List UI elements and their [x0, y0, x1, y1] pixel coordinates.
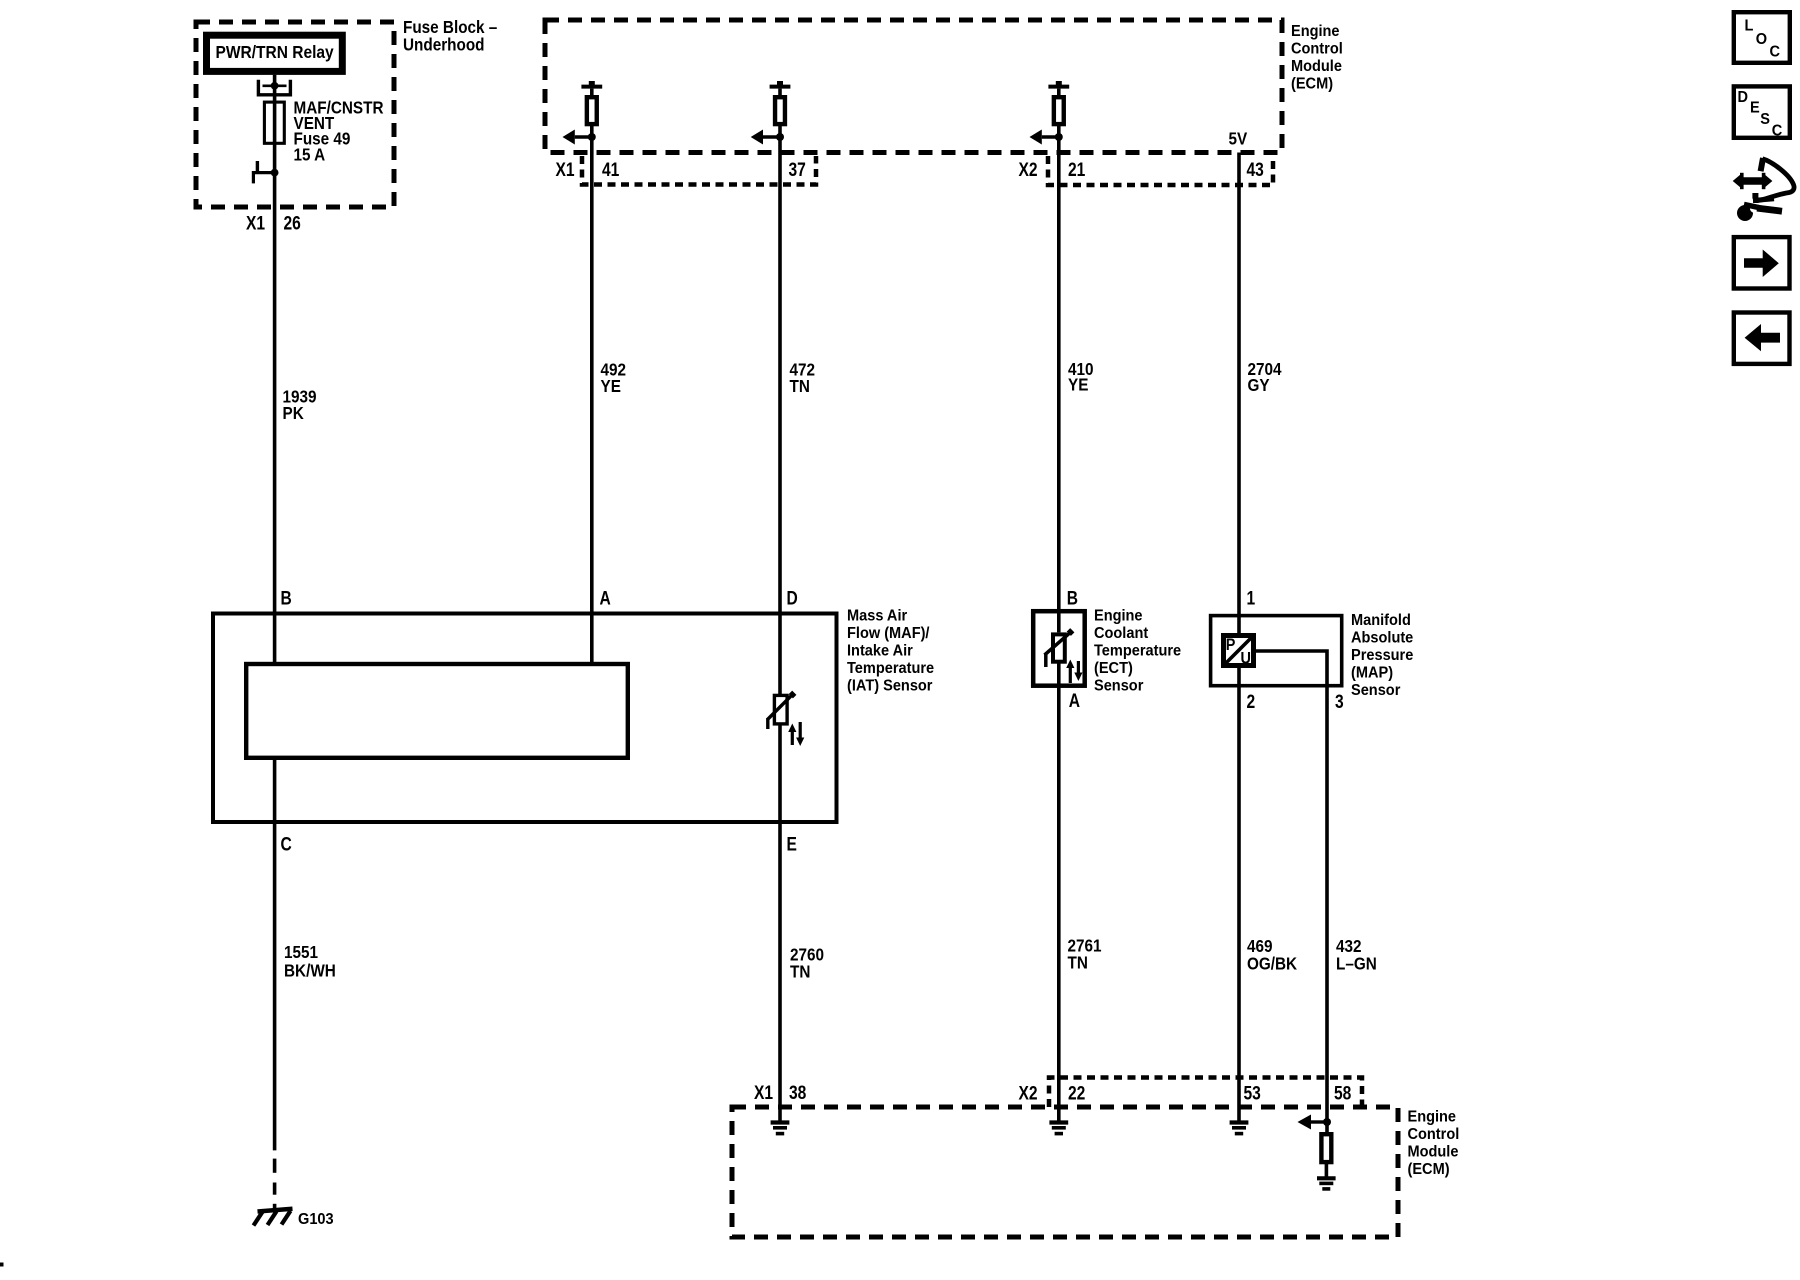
MAF sensor element inner box [246, 664, 628, 758]
svg-text:Intake Air: Intake Air [847, 642, 913, 660]
relay contact bar [263, 85, 287, 88]
svg-text:X1: X1 [754, 1081, 773, 1103]
fine dashed connector box X1 (pins 41,37) [582, 156, 816, 185]
fuse block - underhood dashed box [196, 22, 394, 207]
wire 410 YE (pin 21 to ECT pin B) [1057, 137, 1061, 632]
svg-text:(MAP): (MAP) [1351, 664, 1393, 682]
svg-text:1: 1 [1247, 587, 1256, 609]
svg-text:Underhood: Underhood [403, 35, 485, 55]
ECM internal pin 37: terminal T-bar [770, 85, 791, 89]
wrench [1737, 205, 1753, 221]
junction dot pin 41 [588, 133, 596, 141]
junction dot [271, 82, 279, 90]
airflow arrows (up/down) [791, 732, 794, 746]
svg-text:U: U [1241, 649, 1251, 667]
svg-text:C: C [1770, 43, 1781, 61]
wire 1939 PK (relay to MAF pin B) [273, 75, 277, 662]
wire pin 3 / 432 L-GN (MAP to ECM 58) [1254, 651, 1328, 1134]
wire 492 YE (pin 41 to MAF pin A) [590, 137, 594, 662]
svg-text:X1: X1 [246, 212, 265, 234]
wire 2761 TN (ECT pin A to ECM 22) [1057, 662, 1061, 1122]
svg-text:Absolute: Absolute [1351, 629, 1413, 647]
svg-text:Engine: Engine [1408, 1108, 1457, 1126]
svg-text:Module: Module [1291, 58, 1342, 76]
ECT sensor box [1033, 611, 1085, 686]
MAP pressure transducer P/U [1224, 636, 1254, 666]
ECM internal ground (pin 38) [771, 1120, 790, 1124]
svg-text:Control: Control [1408, 1126, 1460, 1144]
fuse 49 (MAF/CNSTR VENT 15 A) [264, 102, 284, 143]
output arrow pin 41 [575, 135, 592, 138]
ECM internal ground (pin 58 resistor) [1317, 1176, 1336, 1180]
svg-text:L–GN: L–GN [1336, 953, 1377, 973]
wire pin 2 / 469 OG/BK (MAP to ECM 53) [1237, 666, 1241, 1122]
svg-text:P: P [1226, 636, 1236, 654]
MAP sensor box [1211, 616, 1342, 686]
svg-text:GY: GY [1248, 375, 1270, 395]
svg-text:37: 37 [789, 158, 807, 180]
svg-text:S: S [1760, 111, 1770, 129]
svg-text:BK/WH: BK/WH [284, 960, 336, 980]
svg-text:Manifold: Manifold [1351, 612, 1411, 630]
svg-text:C: C [281, 833, 292, 855]
svg-text:26: 26 [284, 212, 302, 234]
vehicle outline squiggle [1761, 158, 1763, 171]
junction dot pin 37 [776, 133, 784, 141]
svg-text:PWR/TRN Relay: PWR/TRN Relay [216, 42, 335, 62]
wire pin E segment (thermistor to box bottom and ECM 38) [778, 724, 782, 1122]
wire 2704 GY (pin 43 to MAP pin 1) [1237, 153, 1241, 634]
svg-text:C: C [1772, 122, 1783, 140]
svg-text:A: A [600, 587, 611, 609]
svg-text:D: D [1738, 89, 1749, 107]
svg-text:Temperature: Temperature [847, 660, 934, 678]
output arrow pin 37 [763, 135, 780, 138]
dashed wire continuation to G103 [273, 1159, 277, 1173]
svg-text:YE: YE [601, 376, 621, 396]
IAT thermistor (variable resistor) [774, 695, 787, 724]
chassis ground G103 [258, 1209, 293, 1212]
svg-text:(ECM): (ECM) [1291, 75, 1333, 93]
svg-text:X1: X1 [556, 158, 575, 180]
svg-text:Sensor: Sensor [1351, 682, 1401, 700]
svg-text:O: O [1756, 31, 1768, 49]
MAF/IAT sensor outer box [213, 614, 837, 823]
wire pin C segment 1551 BK/WH [273, 757, 277, 1151]
svg-text:A: A [1069, 689, 1080, 711]
svg-text:X2: X2 [1019, 1082, 1038, 1104]
fine dashed connector box X2 (pins 21,43) [1048, 156, 1273, 185]
svg-text:Module: Module [1408, 1143, 1459, 1161]
ECM internal pin 41: terminal T-bar [581, 85, 602, 89]
svg-text:58: 58 [1334, 1082, 1352, 1104]
relay output terminal bracket [258, 80, 290, 95]
svg-text:Temperature: Temperature [1094, 642, 1181, 660]
svg-text:22: 22 [1068, 1082, 1086, 1104]
fine dashed connector box X2 (bottom) [1049, 1078, 1362, 1108]
svg-text:PK: PK [283, 403, 304, 423]
svg-text:41: 41 [602, 158, 620, 180]
svg-text:3: 3 [1335, 690, 1344, 712]
ECT airflow arrows [1069, 668, 1072, 683]
svg-text:B: B [1067, 587, 1078, 609]
junction dot pin 21 [1055, 133, 1063, 141]
svg-text:TN: TN [790, 376, 810, 396]
ECM internal resistor pin 21 [1054, 97, 1064, 124]
svg-text:TN: TN [790, 961, 810, 981]
terminal symbol at fuse block output [253, 171, 274, 174]
ECM internal resistor pin 37 [775, 97, 785, 124]
svg-text:E: E [1750, 99, 1760, 117]
svg-text:YE: YE [1068, 374, 1088, 394]
svg-text:38: 38 [789, 1081, 807, 1103]
svg-text:5V: 5V [1229, 128, 1248, 148]
ECM pin 58 signal arrow [1311, 1120, 1327, 1123]
svg-text:B: B [281, 587, 292, 609]
svg-text:Flow (MAF)/: Flow (MAF)/ [847, 625, 930, 643]
svg-text:TN: TN [1068, 952, 1088, 972]
svg-text:E: E [787, 833, 798, 855]
svg-text:15 A: 15 A [294, 144, 326, 164]
svg-text:21: 21 [1068, 158, 1086, 180]
svg-text:L: L [1745, 17, 1754, 35]
ECM internal pin 21: terminal T-bar [1048, 85, 1069, 89]
relay PWR/TRN Relay box [207, 35, 343, 71]
ECM pin 58 junction dot [1323, 1118, 1331, 1126]
svg-text:G103: G103 [298, 1211, 334, 1229]
ECM internal pull-down resistor (pin 58) [1321, 1134, 1331, 1162]
output arrow pin 21 [1042, 135, 1059, 138]
ECM internal ground (pin 22) [1049, 1120, 1068, 1124]
ECT thermistor [1053, 634, 1065, 661]
ECM internal resistor pin 41 [587, 97, 597, 124]
svg-text:(IAT) Sensor: (IAT) Sensor [847, 677, 933, 695]
svg-text:Coolant: Coolant [1094, 625, 1148, 643]
svg-text:Engine: Engine [1291, 23, 1340, 41]
icon box DESC [1734, 86, 1790, 137]
svg-text:53: 53 [1244, 1082, 1262, 1104]
svg-text:D: D [787, 587, 798, 609]
svg-text:(ECM): (ECM) [1408, 1161, 1450, 1179]
svg-text:Sensor: Sensor [1094, 677, 1144, 695]
svg-text:Control: Control [1291, 40, 1343, 58]
svg-text:Pressure: Pressure [1351, 647, 1413, 665]
icon box right-arrow [1734, 237, 1790, 288]
icon box left-arrow [1734, 313, 1790, 364]
svg-text:43: 43 [1247, 158, 1265, 180]
ECM dashed box (bottom) [732, 1107, 1398, 1237]
icon box LOC [1734, 12, 1790, 63]
stray mark at left margin [0, 1263, 4, 1267]
svg-text:Mass Air: Mass Air [847, 607, 907, 625]
ECM dashed box (top) Engine Control Module [545, 20, 1282, 153]
svg-text:(ECT): (ECT) [1094, 660, 1133, 678]
svg-text:OG/BK: OG/BK [1247, 953, 1297, 973]
junction dot [271, 169, 279, 177]
svg-text:X2: X2 [1019, 158, 1038, 180]
icon: swap arrows with vehicle outline and wrench [1733, 174, 1773, 189]
svg-text:2: 2 [1247, 690, 1256, 712]
ECM internal ground (pin 53) [1230, 1120, 1249, 1124]
svg-text:Engine: Engine [1094, 607, 1143, 625]
wire 472 TN (pin 37 to MAF pin D) [778, 137, 782, 694]
